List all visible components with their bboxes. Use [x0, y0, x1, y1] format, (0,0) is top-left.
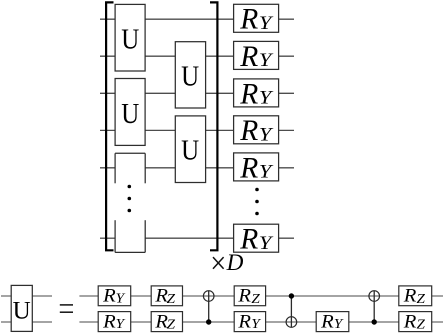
svg-text:U: U [13, 297, 31, 324]
wire q6 [100, 237, 294, 239]
RY gate on q1 [234, 4, 279, 36]
CNOT 3 connector wire [373, 291, 375, 322]
svg-text:R: R [102, 286, 116, 307]
RZ gate wire a column 3 [234, 286, 265, 307]
svg-text:U: U [181, 61, 199, 92]
RY gate wire b column 3 [234, 311, 265, 332]
svg-text:D: D [226, 250, 244, 276]
RY gate wire b column 4 [316, 311, 349, 332]
svg-text:R: R [320, 311, 334, 332]
CNOT 2: control on a, target on b [286, 293, 297, 327]
wire a (rhs) [79, 295, 443, 297]
svg-text:U: U [121, 24, 139, 55]
left repetition bracket [ [106, 2, 113, 250]
svg-text:R: R [237, 286, 251, 307]
RY gate on q3 [234, 78, 279, 110]
U gate (definition lhs) [11, 285, 32, 331]
CNOT 2 target (oplus) on wire b [286, 317, 297, 328]
svg-text:Z: Z [251, 292, 260, 307]
CNOT 1 control dot on wire b [206, 319, 211, 324]
RY gate wire a column 1 [98, 286, 131, 307]
CNOT 2 connector wire [290, 296, 292, 327]
wire q5 [100, 167, 294, 169]
RZ gate wire b column 5 [399, 311, 432, 332]
CNOT 2 control dot on wire a [289, 293, 294, 298]
right repetition bracket ] [210, 2, 217, 250]
svg-text:U: U [181, 135, 199, 166]
svg-text:R: R [239, 78, 258, 110]
ellipsis dots in RY column [255, 188, 259, 216]
CNOT 1: control on b, target on a [203, 291, 214, 325]
U gate U3 (layer 1, qubits 5-n, split with ellipsis) [115, 153, 145, 252]
wire q3 [100, 92, 294, 94]
svg-text:R: R [239, 41, 258, 73]
CNOT 1 connector wire [208, 291, 210, 322]
U gate U2 (layer 1, qubits 3-4) [115, 79, 145, 146]
svg-text:Z: Z [417, 318, 426, 333]
svg-text:R: R [237, 311, 251, 332]
svg-text:Z: Z [167, 318, 176, 333]
equals sign [60, 305, 73, 312]
wire a (lhs stubs) [1, 295, 52, 297]
svg-text:U: U [121, 99, 139, 130]
RY gate wire b column 1 [98, 311, 131, 332]
RZ gate wire b column 2 [151, 311, 182, 332]
RY gate on q4 [234, 115, 279, 147]
RZ gate wire a column 5 [399, 286, 432, 307]
RY gate on q2 [234, 41, 279, 73]
CNOT 3: control on b, target on a [369, 291, 380, 325]
wire b (lhs stubs) [1, 321, 52, 323]
svg-text:Z: Z [417, 292, 426, 307]
U gate U5 (layer 2, qubits 4-5) [175, 116, 205, 183]
CNOT 1 target (oplus) on wire a [203, 291, 214, 302]
ellipsis dots inside U3 [128, 185, 132, 213]
wire b (rhs) [79, 321, 443, 323]
svg-text:R: R [239, 4, 258, 36]
CNOT 3 target (oplus) on wire a [369, 291, 380, 302]
svg-text:R: R [403, 311, 417, 332]
repetition label xD [213, 250, 244, 276]
svg-text:Z: Z [167, 292, 176, 307]
svg-text:R: R [102, 311, 116, 332]
RZ gate wire a column 2 [151, 286, 182, 307]
svg-text:R: R [239, 115, 258, 147]
svg-text:R: R [403, 286, 417, 307]
wire q4 [100, 129, 294, 131]
U gate U4 (layer 2, qubits 2-3) [175, 42, 205, 108]
RY gate on q6 [234, 224, 279, 256]
U gate U1 (layer 1, qubits 1-2) [115, 4, 145, 71]
CNOT 3 control dot on wire b [372, 319, 377, 324]
RY gate on q5 [234, 152, 279, 184]
wire q2 [100, 55, 294, 57]
svg-text:R: R [239, 152, 258, 184]
wire q1 [100, 18, 294, 20]
